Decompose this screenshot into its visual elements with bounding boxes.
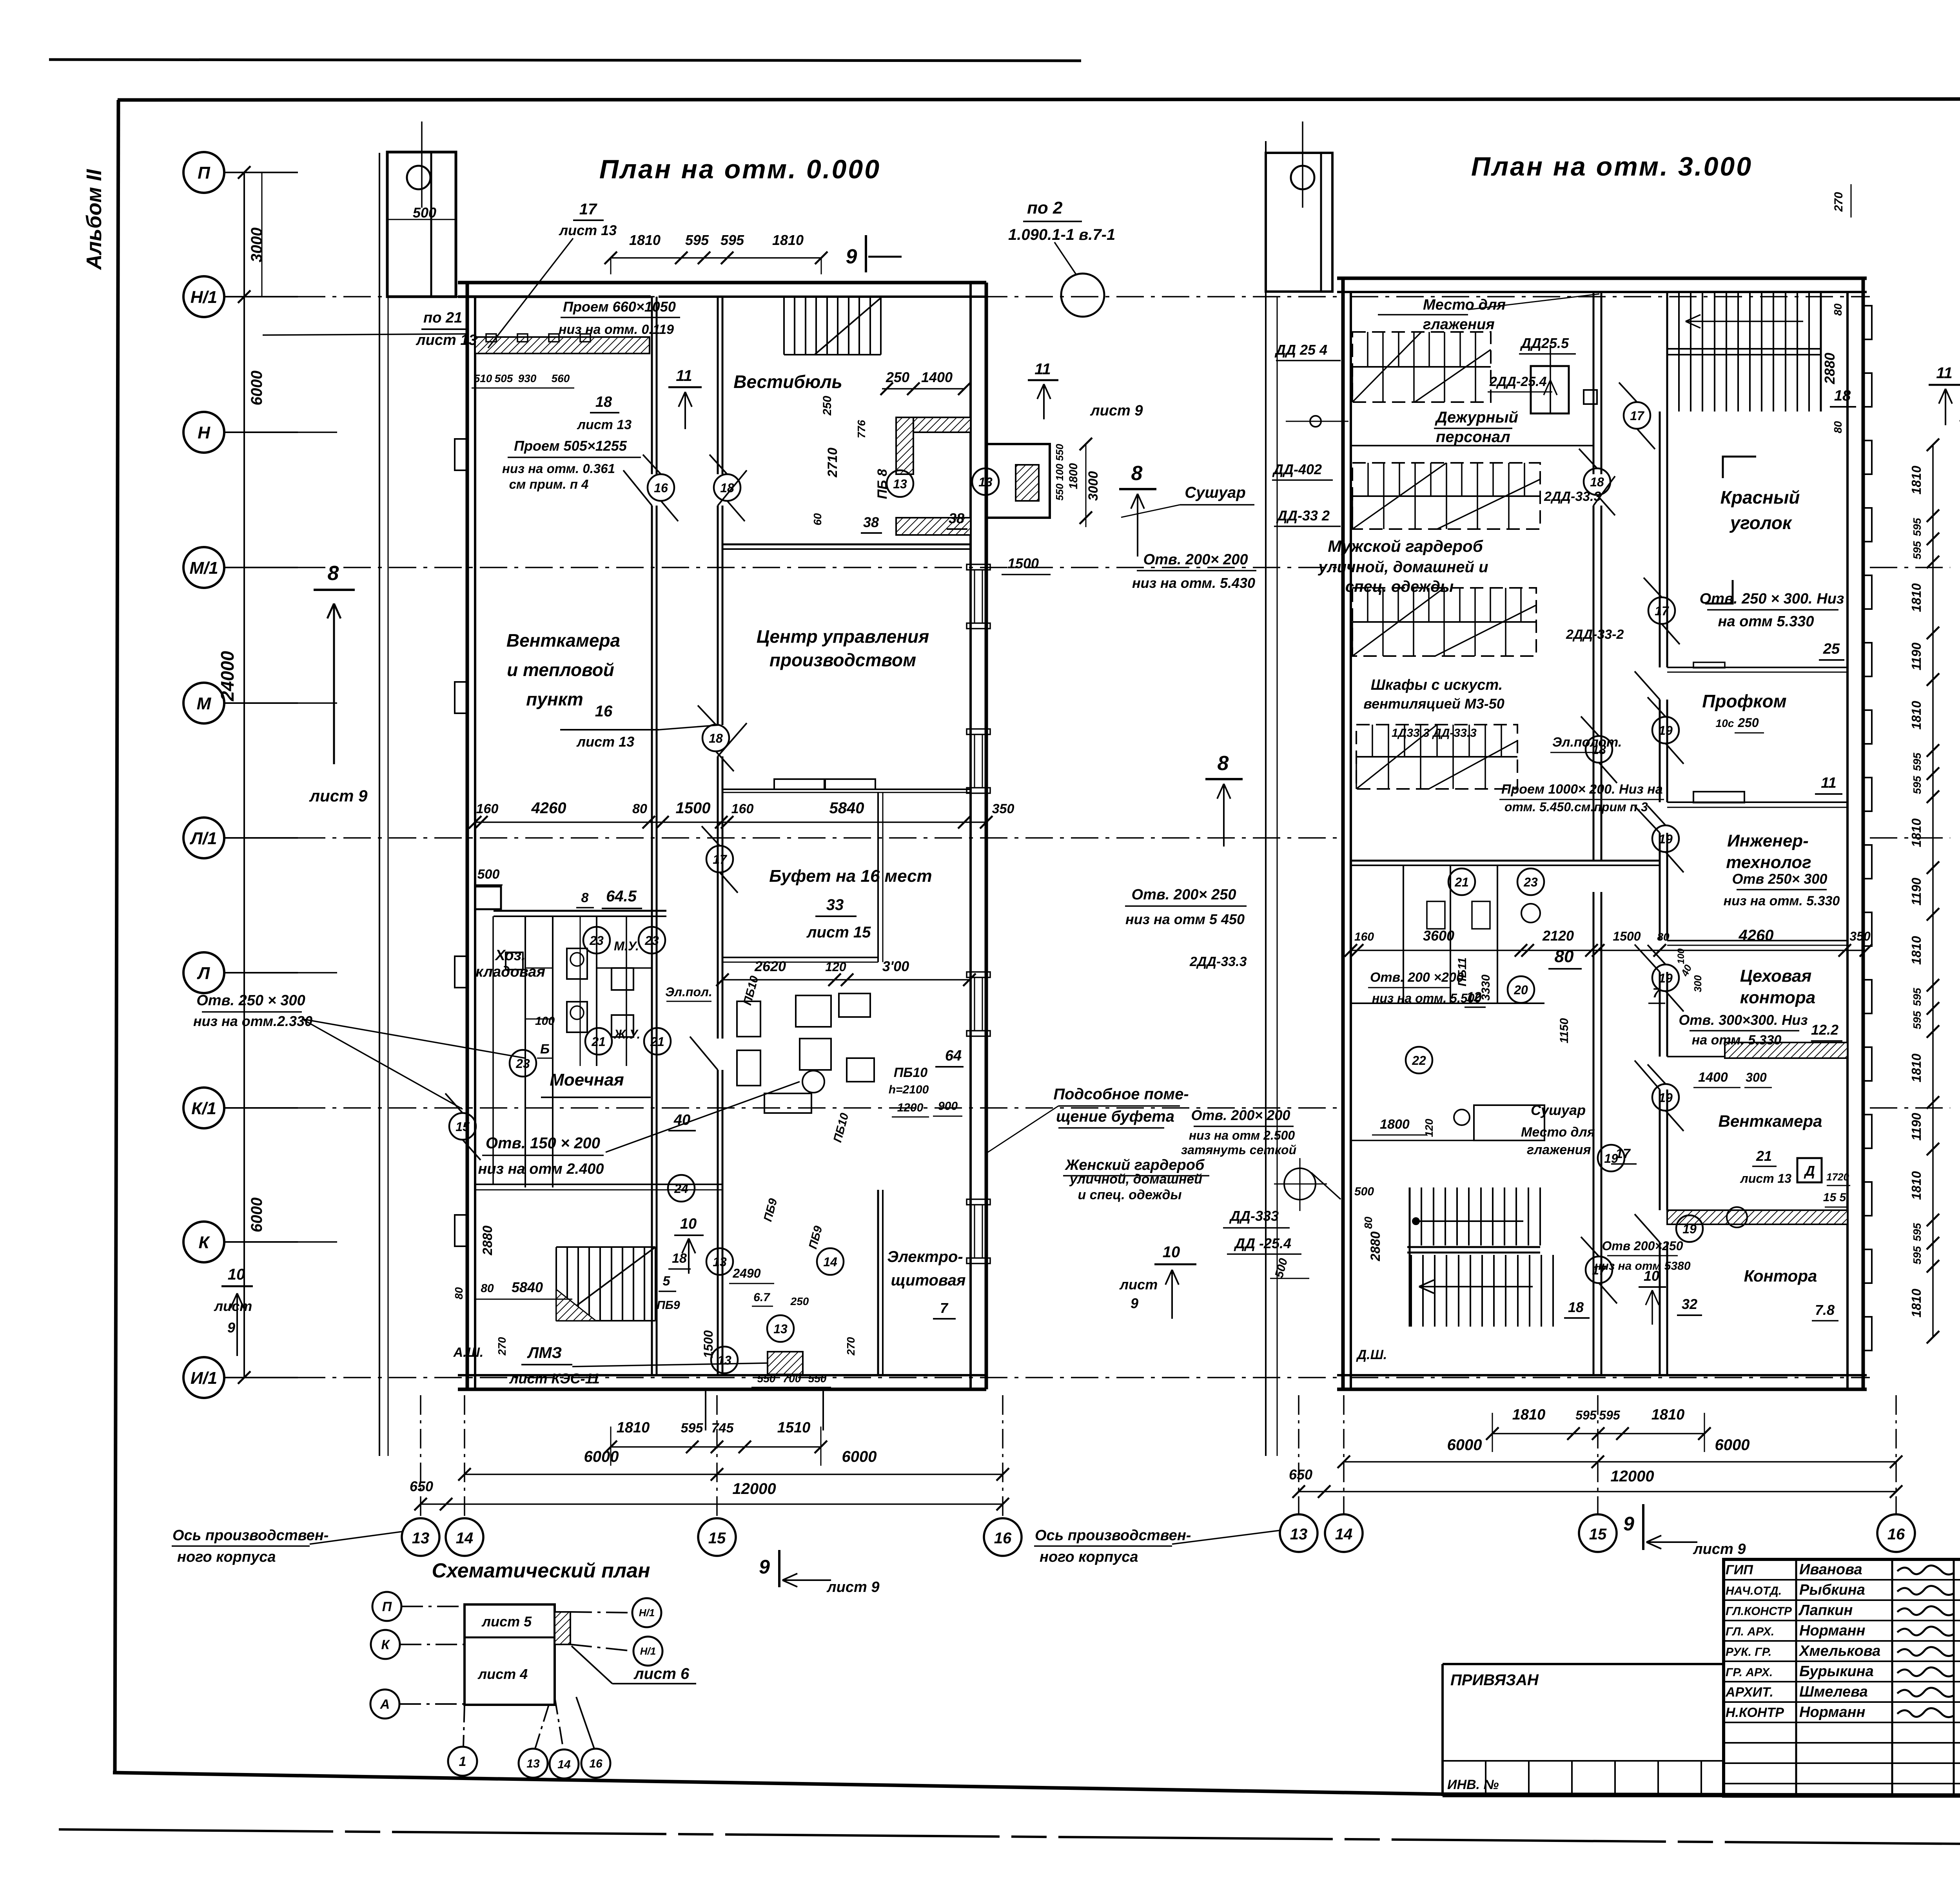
- svg-text:1190: 1190: [1909, 877, 1924, 906]
- svg-text:НАЧ.ОТД.: НАЧ.ОТД.: [1726, 1584, 1782, 1597]
- svg-text:1150: 1150: [1558, 1018, 1571, 1043]
- wall below dezhurny: [1351, 445, 1593, 446]
- svg-text:Отв. 200× 250: Отв. 200× 250: [1132, 886, 1236, 903]
- windows right wall left plan: [967, 564, 990, 570]
- svg-text:лист: лист: [214, 1298, 252, 1314]
- svg-text:13: 13: [526, 1757, 540, 1770]
- svg-text:3600: 3600: [1423, 928, 1454, 944]
- bottom border left: [113, 1773, 1443, 1794]
- svg-text:1810: 1810: [1909, 583, 1924, 612]
- axis П leader: [224, 172, 298, 173]
- axis Л leader: [224, 972, 298, 973]
- svg-text:11: 11: [676, 367, 692, 384]
- axis И/1 circle: [183, 1357, 224, 1398]
- svg-text:22: 22: [1412, 1053, 1426, 1068]
- svg-text:595: 595: [1911, 776, 1923, 794]
- right plan interior wall B: [1659, 412, 1661, 667]
- svg-text:спец. одежды: спец. одежды: [1345, 578, 1454, 595]
- svg-text:1800: 1800: [1380, 1117, 1410, 1132]
- svg-text:13: 13: [713, 1255, 727, 1269]
- svg-text:60: 60: [811, 513, 824, 526]
- svg-text:900: 900: [938, 1100, 958, 1113]
- svg-text:38: 38: [863, 514, 879, 530]
- svg-text:15: 15: [1589, 1526, 1607, 1543]
- svg-text:550 100 550: 550 100 550: [1054, 444, 1065, 500]
- svg-text:Ось производствен-: Ось производствен-: [1035, 1527, 1191, 1544]
- svg-text:1810: 1810: [1909, 1053, 1924, 1082]
- svg-text:64: 64: [945, 1048, 962, 1064]
- svg-text:13: 13: [1290, 1526, 1308, 1543]
- svg-text:М: М: [197, 694, 212, 713]
- svg-text:1.090.1-1 в.7-1: 1.090.1-1 в.7-1: [1008, 226, 1115, 243]
- svg-text:технолог: технолог: [1726, 853, 1811, 872]
- svg-text:11: 11: [1821, 775, 1836, 791]
- svg-text:Отв. 200× 200: Отв. 200× 200: [1143, 551, 1248, 568]
- left plan column circles: [402, 1518, 439, 1556]
- svg-text:К: К: [198, 1233, 210, 1252]
- svg-text:500: 500: [1354, 1185, 1374, 1198]
- svg-text:на отм 5.330: на отм 5.330: [1718, 613, 1814, 630]
- svg-text:18: 18: [1590, 475, 1604, 489]
- circled numbers right plan: [1624, 402, 1650, 429]
- axis И/1 leader: [224, 1377, 298, 1378]
- stair cut diagonal: [815, 298, 881, 355]
- svg-text:19: 19: [1659, 723, 1673, 738]
- svg-text:П: П: [198, 163, 211, 183]
- svg-text:низ на отм 2.500: низ на отм 2.500: [1189, 1128, 1295, 1142]
- svg-text:Шкафы с искуст.: Шкафы с искуст.: [1371, 677, 1503, 693]
- svg-text:300: 300: [1692, 975, 1704, 992]
- svg-text:19: 19: [1682, 1222, 1697, 1236]
- door leaf 17: [690, 1037, 718, 1070]
- svg-text:лист 13: лист 13: [576, 734, 634, 750]
- svg-text:2ДД-33.3: 2ДД-33.3: [1544, 489, 1601, 504]
- svg-text:80: 80: [453, 1287, 465, 1300]
- leader 17: [488, 238, 573, 348]
- svg-text:персонал: персонал: [1436, 428, 1510, 446]
- svg-text:3'00: 3'00: [882, 958, 909, 974]
- axis М/1 circle: [183, 547, 224, 588]
- svg-text:23: 23: [644, 934, 659, 948]
- svg-text:2ДД-25.4: 2ДД-25.4: [1489, 374, 1547, 389]
- svg-text:ного корпуса: ного корпуса: [177, 1549, 276, 1565]
- axis dash-dot lines left plan: [298, 296, 1341, 297]
- svg-text:7.8: 7.8: [1815, 1302, 1835, 1318]
- svg-text:1810: 1810: [1909, 466, 1924, 495]
- svg-text:см прим. п 4: см прим. п 4: [509, 477, 589, 491]
- svg-text:5840: 5840: [829, 799, 864, 817]
- svg-text:14: 14: [456, 1530, 474, 1547]
- svg-text:13: 13: [893, 477, 907, 491]
- svg-text:14: 14: [557, 1758, 571, 1771]
- svg-text:Норманн: Норманн: [1799, 1704, 1866, 1720]
- svg-text:10: 10: [1644, 1268, 1659, 1284]
- svg-text:1810: 1810: [1909, 818, 1924, 847]
- svg-text:Моечная: Моечная: [550, 1070, 624, 1089]
- svg-text:1400: 1400: [921, 369, 953, 385]
- svg-text:отм. 5.450.см.прим п.3: отм. 5.450.см.прим п.3: [1504, 800, 1648, 814]
- svg-text:8: 8: [328, 562, 339, 585]
- svg-text:ГЛ. АРХ.: ГЛ. АРХ.: [1726, 1625, 1774, 1638]
- rack block 3: [1352, 588, 1536, 656]
- svg-text:Ж.У.: Ж.У.: [613, 1027, 641, 1041]
- svg-text:Отв 200×250: Отв 200×250: [1602, 1239, 1683, 1253]
- svg-text:Электро-: Электро-: [887, 1248, 963, 1265]
- svg-text:РУК. ГР.: РУК. ГР.: [1726, 1646, 1771, 1659]
- svg-text:1810: 1810: [1909, 1289, 1924, 1318]
- svg-text:595: 595: [1911, 1223, 1923, 1241]
- svg-text:13: 13: [978, 475, 993, 489]
- svg-text:16: 16: [1887, 1526, 1905, 1543]
- axis Л circle: [183, 952, 224, 993]
- elektroshchitovaya walls: [877, 1190, 879, 1375]
- rack block 4: [1356, 725, 1517, 789]
- svg-text:3000: 3000: [248, 228, 265, 263]
- svg-text:19: 19: [1604, 1151, 1618, 1166]
- svg-text:План на отм. 3.000: План на отм. 3.000: [1471, 152, 1753, 181]
- sushuar area: [1454, 1109, 1470, 1125]
- svg-text:М.У.: М.У.: [614, 939, 639, 953]
- svg-text:Норманн: Норманн: [1799, 1622, 1866, 1639]
- axis Л/1 leader: [224, 837, 298, 839]
- svg-text:595: 595: [1911, 1011, 1923, 1029]
- left wall pilasters: [455, 439, 467, 470]
- svg-text:Рыбкина: Рыбкина: [1799, 1582, 1865, 1598]
- circled numbers left plan: [648, 474, 674, 501]
- svg-text:Н: Н: [198, 423, 211, 442]
- axis Н circle: [183, 412, 224, 453]
- svg-text:7: 7: [940, 1300, 949, 1316]
- svg-text:1200: 1200: [897, 1101, 924, 1114]
- svg-text:ДД-402: ДД-402: [1272, 461, 1322, 477]
- left plan lower stairs: [555, 1247, 557, 1321]
- svg-text:24: 24: [674, 1182, 688, 1196]
- svg-text:Проем 1000× 200. Низ на: Проем 1000× 200. Низ на: [1501, 782, 1663, 797]
- svg-text:уличной, домашней: уличной, домашней: [1069, 1172, 1202, 1187]
- svg-text:120: 120: [825, 960, 846, 974]
- svg-text:100: 100: [535, 1015, 555, 1028]
- svg-text:и тепловой: и тепловой: [507, 660, 614, 680]
- axis К/1 circle: [183, 1088, 224, 1128]
- svg-text:15 5: 15 5: [1823, 1191, 1847, 1204]
- axis М circle: [183, 683, 224, 723]
- svg-text:745: 745: [711, 1421, 734, 1436]
- svg-text:ПБ9: ПБ9: [657, 1299, 680, 1312]
- signature table: [1724, 1559, 1960, 1796]
- svg-text:23: 23: [589, 934, 604, 948]
- svg-text:глажения: глажения: [1423, 316, 1495, 333]
- right plan top stairs: [1666, 292, 1668, 412]
- svg-text:ПБ10: ПБ10: [894, 1065, 927, 1080]
- svg-text:ГЛ.КОНСТР: ГЛ.КОНСТР: [1726, 1605, 1792, 1618]
- svg-text:2120: 2120: [1542, 928, 1574, 944]
- left plan outer walls: [458, 281, 986, 285]
- svg-text:2880: 2880: [480, 1225, 495, 1256]
- svg-text:1190: 1190: [1909, 1113, 1924, 1141]
- svg-text:17: 17: [1592, 1263, 1607, 1277]
- dezhurny desk: [1531, 366, 1569, 413]
- svg-text:лист 9: лист 9: [1693, 1541, 1746, 1557]
- svg-text:17: 17: [579, 201, 597, 218]
- svg-text:Отв. 200 ×200: Отв. 200 ×200: [1370, 970, 1464, 985]
- svg-text:270: 270: [496, 1337, 508, 1356]
- svg-text:Эл.пол.: Эл.пол.: [665, 985, 712, 999]
- svg-text:ИНВ. №: ИНВ. №: [1447, 1777, 1499, 1792]
- axis К/1 leader: [224, 1107, 298, 1109]
- wall y2196: [1351, 865, 1660, 866]
- svg-text:33: 33: [826, 896, 844, 914]
- svg-text:160: 160: [1354, 930, 1374, 943]
- svg-text:10с: 10с: [1716, 717, 1734, 729]
- svg-text:Отв. 200× 200: Отв. 200× 200: [1191, 1107, 1290, 1123]
- svg-text:Подсобное поме-: Подсобное поме-: [1053, 1086, 1189, 1103]
- svg-text:И/1: И/1: [191, 1369, 217, 1388]
- svg-text:затянуть сеткой: затянуть сеткой: [1181, 1143, 1296, 1157]
- svg-text:19: 19: [1659, 832, 1673, 846]
- svg-text:15: 15: [456, 1120, 470, 1134]
- svg-text:на отм. 5.330: на отм. 5.330: [1692, 1033, 1782, 1048]
- svg-text:120: 120: [1423, 1118, 1435, 1137]
- svg-text:Буфет на 16 мест: Буфет на 16 мест: [769, 867, 932, 886]
- svg-text:40: 40: [673, 1112, 690, 1128]
- svg-text:250: 250: [1737, 716, 1759, 730]
- svg-text:Н/1: Н/1: [191, 288, 217, 307]
- left plan right shaft column: [379, 153, 380, 1456]
- svg-text:Альбом II: Альбом II: [82, 169, 106, 270]
- svg-text:кладовая: кладовая: [475, 964, 545, 980]
- axis К leader: [224, 1241, 298, 1243]
- svg-text:ДД-333: ДД-333: [1229, 1208, 1279, 1224]
- partition y2014 with sill: [722, 789, 971, 790]
- svg-text:18: 18: [1834, 388, 1851, 404]
- svg-text:Хмелькова: Хмелькова: [1798, 1643, 1880, 1659]
- svg-text:уголок: уголок: [1730, 513, 1793, 533]
- svg-text:80: 80: [1832, 421, 1844, 433]
- svg-text:595: 595: [1911, 752, 1923, 771]
- svg-text:12000: 12000: [732, 1480, 776, 1497]
- svg-text:80: 80: [481, 1282, 494, 1295]
- svg-text:Цеховая: Цеховая: [1740, 966, 1812, 986]
- svg-text:лист КЭС-11: лист КЭС-11: [509, 1370, 600, 1387]
- svg-text:АРХИТ.: АРХИТ.: [1725, 1685, 1773, 1700]
- right plan bottom stairs: [1409, 1187, 1410, 1245]
- svg-text:ЛМЗ: ЛМЗ: [527, 1344, 562, 1361]
- column mark circle: [1284, 1168, 1316, 1200]
- svg-text:18: 18: [1568, 1299, 1584, 1315]
- svg-text:ДД -25.4: ДД -25.4: [1234, 1235, 1291, 1251]
- svg-text:Л/1: Л/1: [190, 829, 217, 848]
- axis Н/1 leader: [224, 296, 298, 297]
- svg-text:низ на отм. 0.361: низ на отм. 0.361: [502, 461, 615, 476]
- svg-text:1Д33 3 ДД-33.3: 1Д33 3 ДД-33.3: [1392, 727, 1477, 740]
- svg-text:38: 38: [949, 510, 964, 526]
- svg-text:80: 80: [1362, 1216, 1374, 1229]
- svg-text:Н/1: Н/1: [640, 1645, 656, 1657]
- svg-text:Н.КОНТР: Н.КОНТР: [1726, 1705, 1784, 1720]
- svg-text:160: 160: [476, 801, 499, 816]
- svg-text:595: 595: [1911, 1246, 1923, 1264]
- svg-text:5: 5: [663, 1274, 671, 1289]
- svg-text:21: 21: [1454, 875, 1469, 889]
- svg-text:16: 16: [589, 1757, 603, 1770]
- svg-text:300: 300: [1746, 1070, 1767, 1084]
- frame top: [118, 99, 1960, 100]
- svg-text:2490: 2490: [732, 1266, 760, 1280]
- svg-text:Красный: Красный: [1720, 487, 1800, 508]
- axis М leader: [224, 702, 298, 704]
- svg-text:17: 17: [1630, 409, 1645, 423]
- svg-text:лист: лист: [1119, 1276, 1158, 1293]
- svg-text:К: К: [381, 1637, 390, 1652]
- svg-text:595: 595: [1599, 1408, 1621, 1422]
- svg-text:лист 9: лист 9: [1090, 402, 1143, 419]
- right plan shaft column: [1265, 141, 1267, 1456]
- svg-text:Отв. 150 × 200: Отв. 150 × 200: [486, 1135, 600, 1152]
- svg-text:1: 1: [459, 1754, 466, 1769]
- svg-text:23: 23: [515, 1057, 530, 1071]
- hatched wall top corridor: [475, 337, 650, 353]
- svg-text:18: 18: [595, 394, 612, 410]
- svg-text:23: 23: [1523, 875, 1538, 889]
- tambour protrusion: [986, 444, 1050, 518]
- svg-text:8: 8: [1131, 462, 1143, 485]
- svg-text:1800: 1800: [1067, 463, 1080, 489]
- kladovye cubicles: [1403, 865, 1404, 1003]
- svg-text:15: 15: [708, 1530, 726, 1547]
- svg-text:1810: 1810: [1909, 701, 1924, 730]
- svg-text:80: 80: [1832, 303, 1844, 316]
- svg-text:низ на отм 5 450: низ на отм 5 450: [1125, 911, 1245, 927]
- svg-text:щитовая: щитовая: [891, 1272, 966, 1289]
- svg-text:510: 510: [474, 372, 492, 384]
- svg-text:П: П: [382, 1599, 392, 1614]
- svg-text:16: 16: [994, 1530, 1012, 1547]
- svg-text:13: 13: [773, 1322, 788, 1336]
- svg-text:25: 25: [1823, 641, 1840, 657]
- svg-text:2880: 2880: [1822, 353, 1838, 384]
- svg-text:ПБ 8: ПБ 8: [875, 469, 890, 499]
- axis Н/1 circle: [183, 276, 224, 317]
- svg-text:9: 9: [1623, 1513, 1634, 1535]
- svg-text:контора: контора: [1740, 988, 1816, 1007]
- svg-text:ДД 25 4: ДД 25 4: [1274, 342, 1327, 358]
- svg-text:Дежурный: Дежурный: [1435, 409, 1518, 426]
- svg-text:2710: 2710: [825, 448, 840, 478]
- svg-text:500: 500: [477, 867, 500, 882]
- svg-text:1810: 1810: [1909, 936, 1924, 965]
- svg-text:глажения: глажения: [1527, 1142, 1591, 1157]
- svg-text:ГР. АРХ.: ГР. АРХ.: [1726, 1666, 1773, 1679]
- door diag marks: [643, 455, 678, 521]
- door leaf 18 up: [718, 470, 747, 506]
- hatched tambour walls: [896, 417, 971, 432]
- svg-text:производством: производством: [769, 650, 916, 670]
- svg-text:595: 595: [1575, 1408, 1597, 1422]
- right plan outer walls: [1337, 277, 1867, 280]
- svg-text:500: 500: [413, 205, 436, 221]
- svg-text:Контора: Контора: [1744, 1267, 1817, 1285]
- svg-text:5840: 5840: [512, 1279, 543, 1295]
- svg-text:250: 250: [821, 396, 834, 416]
- svg-text:Б: Б: [540, 1042, 550, 1057]
- svg-text:21: 21: [591, 1035, 606, 1049]
- axis К circle: [183, 1222, 224, 1262]
- svg-text:595: 595: [681, 1421, 704, 1436]
- niche 500: [475, 886, 501, 909]
- svg-text:ПРИВЯЗАН: ПРИВЯЗАН: [1450, 1671, 1539, 1689]
- svg-text:10: 10: [1163, 1244, 1180, 1261]
- svg-text:64.5: 64.5: [606, 888, 637, 905]
- svg-text:350: 350: [992, 801, 1014, 816]
- svg-text:4260: 4260: [531, 799, 566, 817]
- svg-text:низ на отм. 0.119: низ на отм. 0.119: [559, 322, 674, 337]
- svg-text:1400: 1400: [1698, 1070, 1728, 1085]
- svg-text:2ДД-33.3: 2ДД-33.3: [1189, 954, 1247, 969]
- svg-text:10: 10: [228, 1266, 245, 1283]
- hatched wall под цеховой конторой: [1725, 1042, 1847, 1058]
- svg-text:650: 650: [1289, 1467, 1312, 1483]
- svg-text:17: 17: [1655, 604, 1670, 618]
- svg-text:Отв 250× 300: Отв 250× 300: [1732, 871, 1828, 887]
- svg-text:8: 8: [581, 890, 589, 905]
- wc fixtures: [567, 948, 587, 979]
- rack block 2: [1352, 463, 1540, 529]
- svg-text:Мужской гардероб: Мужской гардероб: [1328, 537, 1483, 555]
- svg-text:Проем 660×1050: Проем 660×1050: [563, 299, 676, 315]
- right plan interior wall A: [1593, 292, 1595, 474]
- svg-text:19: 19: [1659, 971, 1673, 985]
- svg-text:Инженер-: Инженер-: [1727, 831, 1809, 850]
- svg-text:20: 20: [1514, 983, 1528, 997]
- svg-text:14: 14: [823, 1255, 837, 1269]
- svg-text:930: 930: [518, 372, 537, 384]
- svg-text:Место для: Место для: [1423, 297, 1506, 313]
- svg-text:1810: 1810: [629, 232, 661, 248]
- svg-text:1500: 1500: [1613, 929, 1641, 943]
- svg-text:вентиляцией М3-50: вентиляцией М3-50: [1363, 696, 1504, 712]
- svg-text:по 21: по 21: [423, 310, 462, 326]
- svg-text:ГИП: ГИП: [1726, 1563, 1753, 1577]
- svg-text:2620: 2620: [754, 958, 786, 974]
- right plan column circles: [1280, 1514, 1318, 1552]
- right plan right dim chain: [1932, 445, 1934, 1337]
- top trim line: [49, 60, 1081, 61]
- svg-text:Ось производствен-: Ось производствен-: [172, 1527, 328, 1544]
- svg-text:ного корпуса: ного корпуса: [1040, 1549, 1138, 1565]
- svg-text:11: 11: [1936, 364, 1953, 382]
- svg-text:80: 80: [632, 801, 647, 816]
- svg-text:270: 270: [1832, 192, 1845, 212]
- svg-text:6000: 6000: [248, 371, 265, 406]
- svg-text:21: 21: [650, 1035, 664, 1049]
- svg-text:550: 550: [757, 1372, 776, 1385]
- svg-text:Отв. 300×300. Низ: Отв. 300×300. Низ: [1679, 1012, 1808, 1028]
- svg-text:595: 595: [1911, 541, 1923, 559]
- svg-text:595: 595: [1911, 518, 1923, 536]
- svg-text:Схематический план: Схематический план: [432, 1559, 650, 1582]
- svg-text:Бурыкина: Бурыкина: [1799, 1663, 1874, 1680]
- svg-text:9: 9: [1131, 1295, 1138, 1311]
- svg-text:2880: 2880: [1368, 1231, 1383, 1262]
- svg-text:щение буфета: щение буфета: [1056, 1108, 1174, 1125]
- axis П circle: [183, 152, 224, 193]
- rack block 1: [1352, 332, 1491, 402]
- svg-text:низ на отм.2.330: низ на отм.2.330: [193, 1013, 312, 1029]
- svg-text:Венткамера: Венткамера: [1718, 1112, 1822, 1130]
- entrance porch: [705, 1389, 706, 1430]
- svg-text:560: 560: [552, 372, 570, 384]
- privyazan box: [1443, 1663, 1724, 1665]
